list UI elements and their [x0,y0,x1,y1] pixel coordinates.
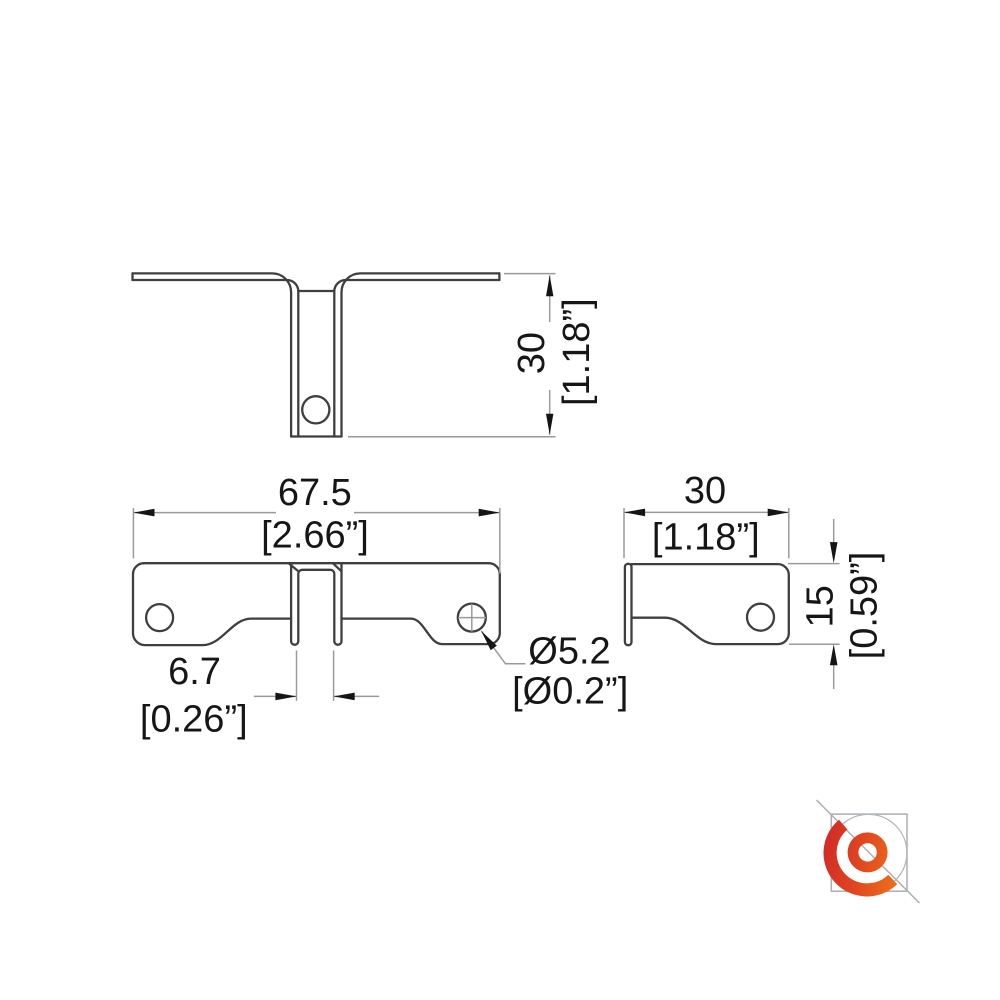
front view: right flange bottom surface line into right wall inner edge [334,280,499,437]
plan view: right end (corner + right edge + bottom right section + S into mid line) [342,563,500,644]
svg-text:[1.18”]: [1.18”] [652,517,760,559]
svg-text:30: 30 [511,332,553,374]
dimension stem upper [549,275,551,322]
dimension 30 [1.18"] of front view [348,274,556,437]
front view: left flange bottom surface line into left wall inner edge [133,280,299,437]
extension line left [132,508,134,558]
extension line right [499,508,501,574]
logo circle [830,814,907,891]
extension line right [333,651,335,701]
svg-text:6.7: 6.7 [168,651,221,693]
hole callout leader [481,631,525,664]
front view: left end cap [131,273,133,280]
svg-text:[1.18”]: [1.18”] [556,298,598,406]
arrow up [830,644,838,665]
svg-text:[2.66”]: [2.66”] [261,515,369,557]
arrow left [624,509,645,517]
dimension stem lower [549,390,551,435]
front view: inner web line at top of channel [298,290,334,292]
extension line right [788,508,790,558]
extension line left [296,651,298,701]
extension line left [623,508,625,558]
plan view: left bend diagonal [289,564,297,571]
side view: flange strip edge-on [625,564,632,645]
plan view: pressed tab U-strap (channel walls) [291,563,341,644]
front view: channel bottom edge [291,435,341,437]
dimension 15 [0.59"] of side view [788,519,840,689]
arrow pointing right [275,693,296,701]
plan view: right hole [458,604,486,632]
svg-text:[0.26”]: [0.26”] [140,699,248,741]
arrow right [768,509,789,517]
arrow down [546,414,553,435]
svg-text:15: 15 [800,585,842,627]
logo big arc [824,820,898,897]
dimension tail left [254,695,297,697]
side view: body outline [632,564,789,644]
extension line bottom [348,436,556,438]
crosshair of right hole [458,604,486,632]
logo inner ring [848,832,888,872]
svg-text:[0.59”]: [0.59”] [844,552,886,660]
svg-text:[Ø0.2”]: [Ø0.2”] [512,671,628,713]
lower stem [833,665,835,689]
dimension line left part [133,512,276,514]
svg-text:30: 30 [684,470,726,512]
arrow right [479,509,500,517]
arrow pointing left [334,693,355,701]
side view: hole [747,604,774,631]
logo square [831,814,907,891]
upper stem [833,519,835,543]
extension line top [504,273,556,275]
plan view: right bend diagonal [334,564,341,571]
extension line bottom [789,643,840,645]
logo diagonal [817,800,920,903]
svg-text:67.5: 67.5 [278,472,352,514]
plan view: left hole [146,604,173,631]
arrow down [830,542,838,563]
dimension tail right [334,695,380,697]
dimension line right part [354,512,500,514]
svg-text:Ø5.2: Ø5.2 [528,631,610,673]
dimension 30 [1.18"] of side view [624,508,789,558]
arrow left [133,509,154,517]
plan view: top edge [144,562,489,564]
front view: left flange top surface line into left wall outer edge [133,273,292,436]
front view: right flange top surface line into right wall outer edge [342,273,500,436]
dimension line [624,511,789,513]
plan view: left end (corners + left edge + bottom left section) [133,563,291,645]
front view: hole in drop tab [302,396,329,423]
leader arrow [481,631,497,650]
front view: right end cap [498,273,500,280]
arrow up [546,275,553,296]
dimension 6.7 [0.26"] of plan view [254,651,379,701]
dimension 67.5 [2.66"] of plan view [133,508,499,574]
extension line top [788,563,840,565]
